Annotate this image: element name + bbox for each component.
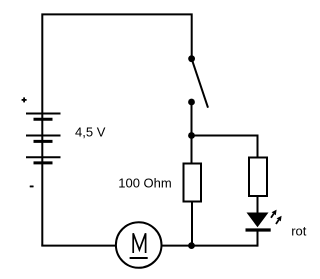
svg-text:100 Ohm: 100 Ohm	[118, 176, 171, 191]
svg-text:4,5 V: 4,5 V	[75, 125, 106, 140]
svg-text:rot: rot	[291, 224, 307, 239]
